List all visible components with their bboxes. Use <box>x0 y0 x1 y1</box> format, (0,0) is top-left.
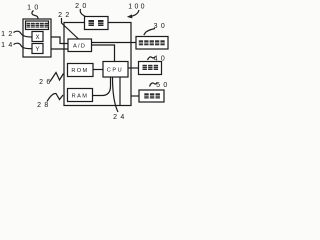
svg-text:5 0: 5 0 <box>156 82 168 89</box>
svg-text:1 4: 1 4 <box>1 42 13 49</box>
svg-text:4 0: 4 0 <box>154 55 166 62</box>
display block 40 <box>139 62 162 75</box>
svg-text:1 0 0: 1 0 0 <box>128 4 145 11</box>
wire X output to A/D <box>43 37 68 44</box>
recorder block 50 <box>139 90 164 102</box>
wire RAM to CPU <box>93 77 111 96</box>
wire A/D down to CPU <box>92 45 115 62</box>
svg-text:2 0: 2 0 <box>75 3 87 10</box>
svg-text:1 2: 1 2 <box>1 31 13 38</box>
block Y (14) <box>32 44 43 54</box>
svg-text:2 2: 2 2 <box>58 12 70 19</box>
block X (12) <box>32 32 43 42</box>
arrowhead 100 <box>127 14 133 18</box>
leader for label 14 <box>14 43 33 49</box>
leader for label 20 <box>80 9 85 17</box>
wire CPU to display block <box>128 67 139 69</box>
svg-text:ROM: ROM <box>71 68 88 74</box>
leader for label 50 <box>150 83 158 87</box>
svg-text:2 8: 2 8 <box>37 102 49 109</box>
wire CPU to bottom bus edge <box>119 77 121 106</box>
wire A/D to timer block <box>92 42 137 44</box>
leader for label 40 <box>148 57 156 61</box>
wire ROM to CPU <box>93 69 103 71</box>
leader for label 22 <box>62 18 79 39</box>
leader for label 24 <box>113 77 119 112</box>
ROM 26 <box>68 64 94 77</box>
operation block 20 <box>85 17 109 30</box>
svg-text:1 0: 1 0 <box>27 5 39 12</box>
svg-text:3 0: 3 0 <box>154 23 166 30</box>
wire Y output to A/D <box>43 48 68 50</box>
timer block 30 <box>136 37 168 50</box>
pseudo-kanji: display block text (3 chars) <box>143 65 159 70</box>
svg-text:A/D: A/D <box>73 44 86 50</box>
leader for label 26 <box>50 73 64 82</box>
svg-text:2 6: 2 6 <box>39 79 51 86</box>
pseudo-kanji: recorder block text (3 chars) <box>144 93 160 98</box>
tablet unit box 10 <box>23 19 51 57</box>
svg-text:CPU: CPU <box>107 68 124 74</box>
leader for label 10 <box>32 11 38 20</box>
main unit box 100 <box>64 23 131 106</box>
leader arrow for label 100 <box>132 10 139 16</box>
leader for label 12 <box>14 31 33 37</box>
A/D converter 22 <box>68 39 92 52</box>
leader for label 30 <box>144 29 155 36</box>
pseudo-kanji: operation block text (2 chars) <box>89 20 104 26</box>
leader for label 28 <box>47 93 63 101</box>
pseudo-kanji: coordinate detector label (5 chars) <box>27 23 49 28</box>
CPU 24 <box>103 62 128 78</box>
RAM 28 <box>68 89 93 102</box>
svg-text:Y: Y <box>35 47 39 53</box>
coordinate-detector label box <box>26 21 49 30</box>
svg-text:X: X <box>35 35 39 41</box>
wire bus to recorder block <box>131 95 140 97</box>
pseudo-kanji: timer block text (5 chars) <box>139 40 165 45</box>
svg-text:RAM: RAM <box>72 94 89 100</box>
svg-text:2 4: 2 4 <box>113 114 125 120</box>
